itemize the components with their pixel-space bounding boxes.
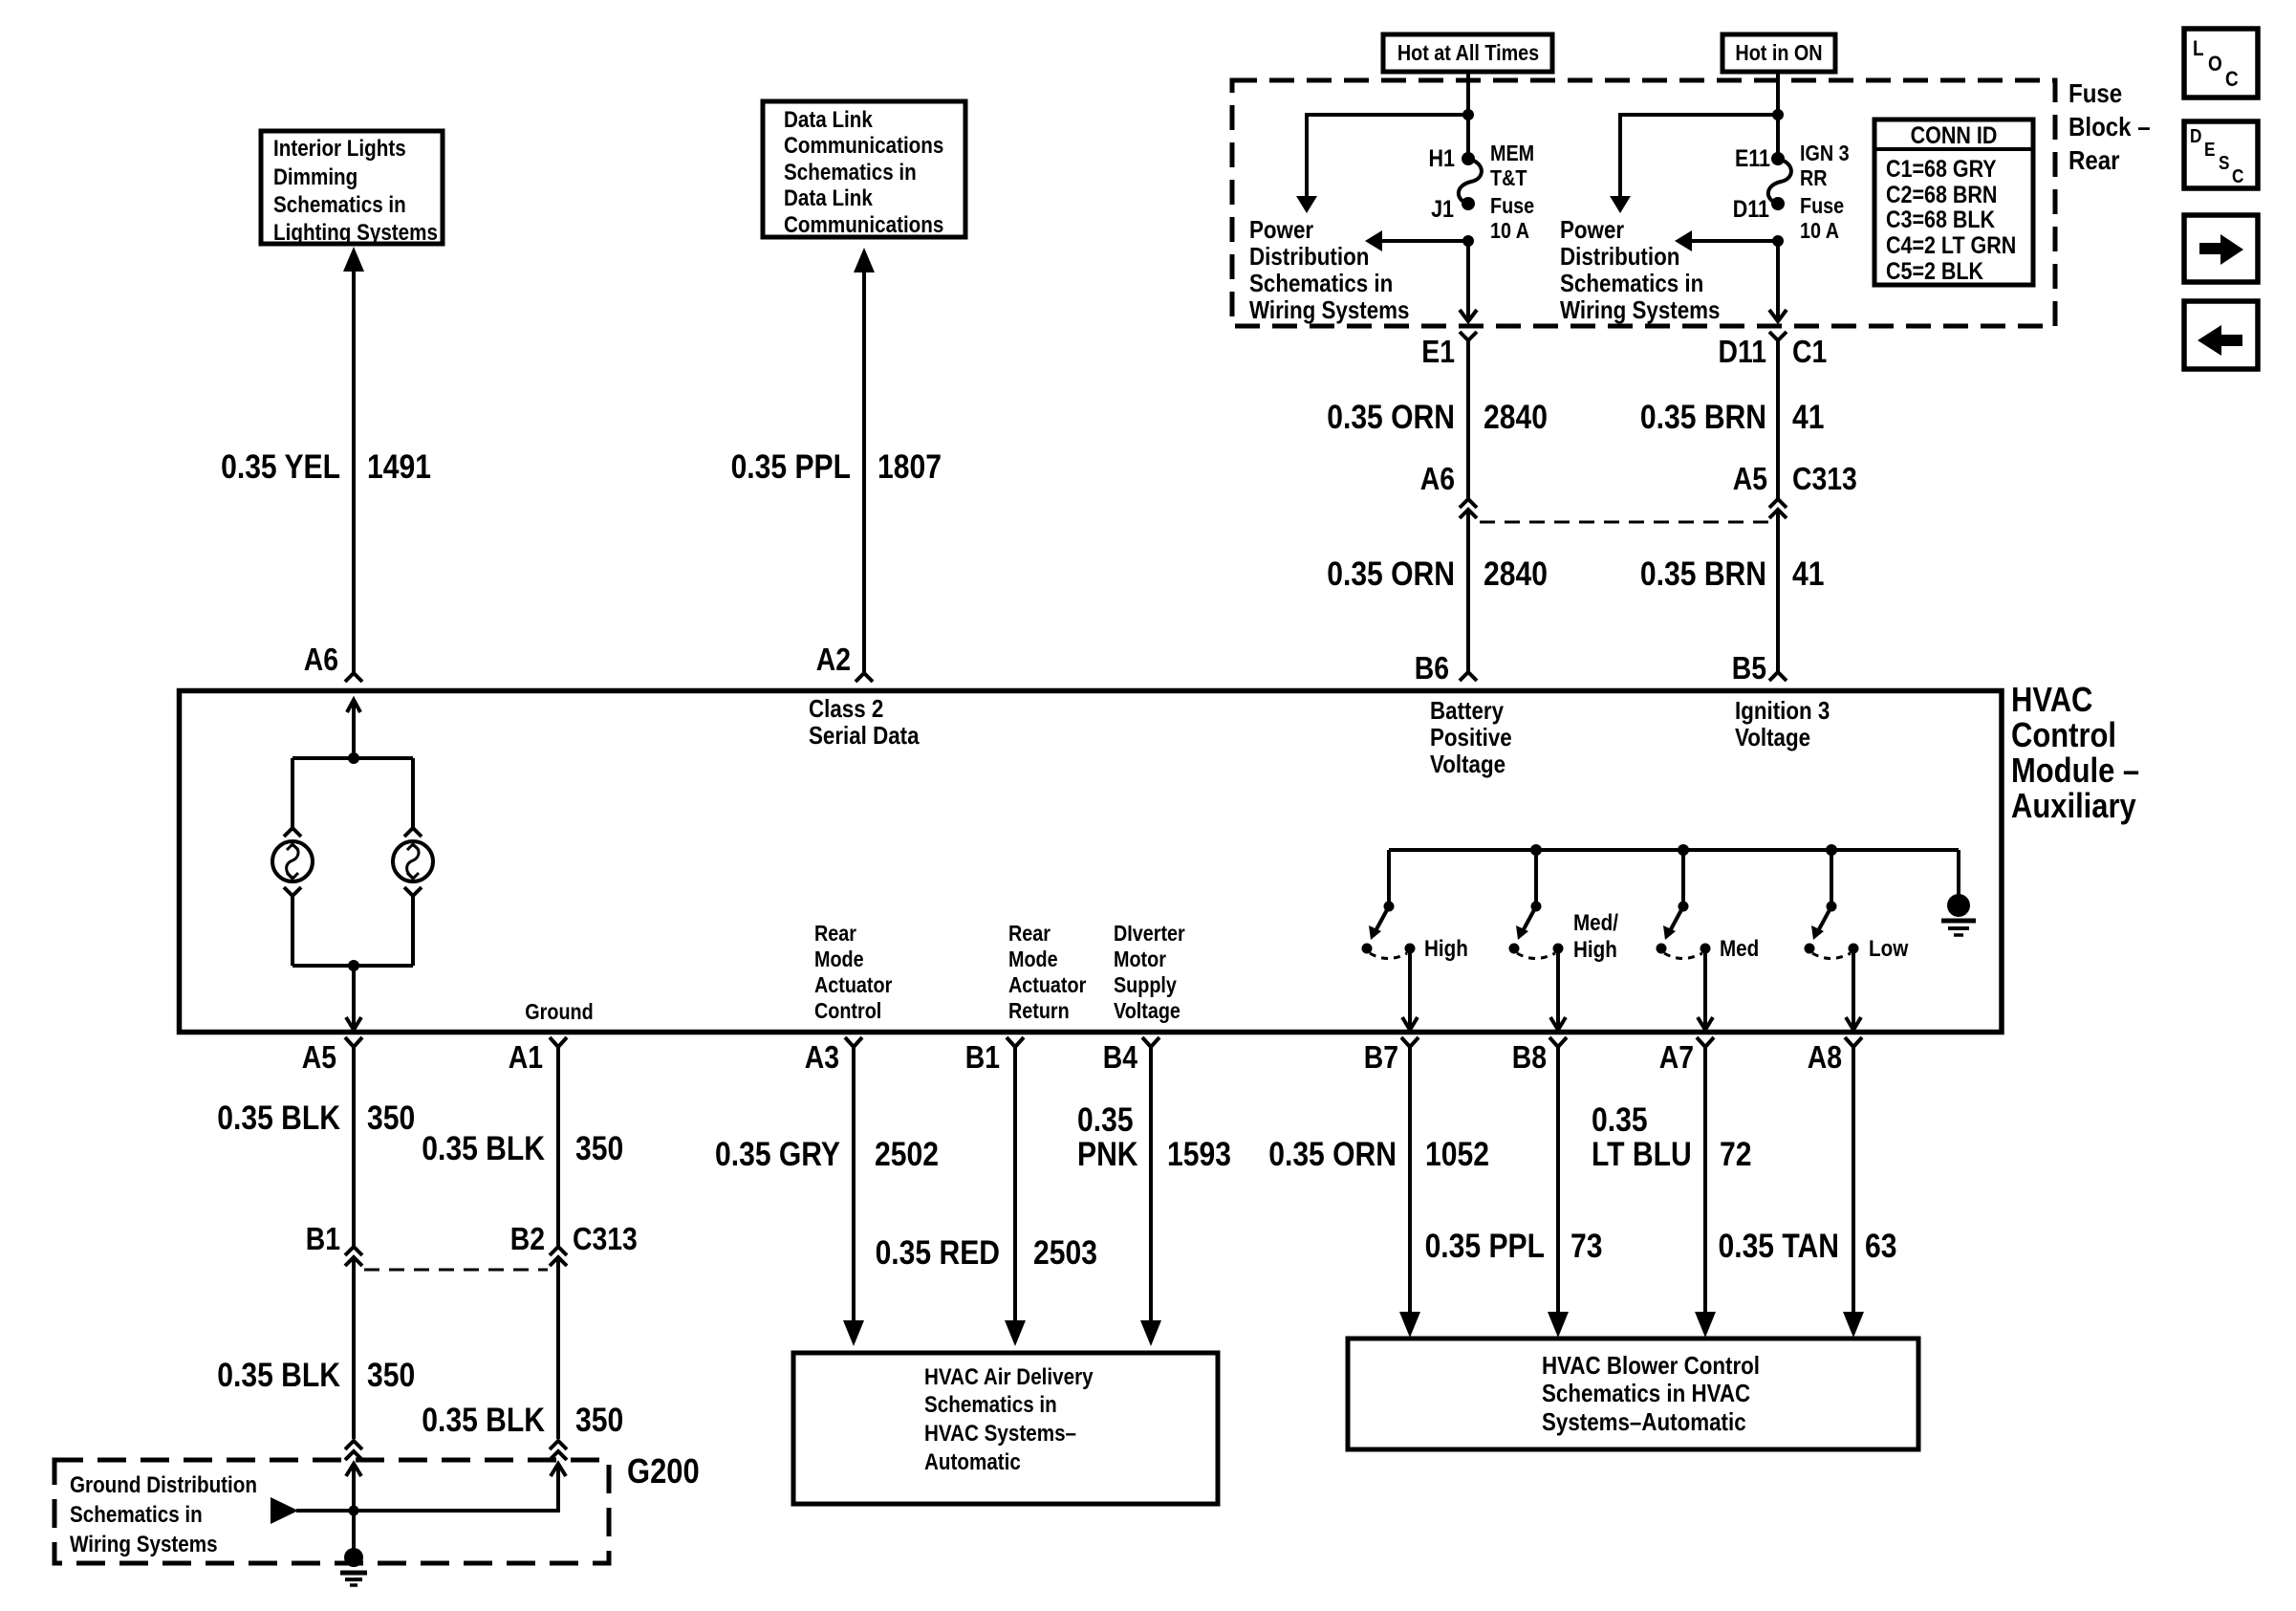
link box HVAC Air Delivery Schematics in HVAC Systems-Automatic [793,1353,1218,1504]
junction node below fuse [1772,235,1784,247]
svg-text:0.35 PPL: 0.35 PPL [1425,1227,1545,1265]
svg-text:Actuator: Actuator [1008,973,1087,998]
in-line connector C313 right half (B2) [550,1247,567,1266]
svg-text:Wiring Systems: Wiring Systems [70,1532,218,1557]
svg-text:0.35 TAN: 0.35 TAN [1718,1227,1839,1265]
dashed harness line of connector C313 [1480,521,1768,524]
svg-text:73: 73 [1570,1227,1602,1265]
svg-text:Class 2: Class 2 [809,695,883,723]
junction node rail SW2 [1530,844,1542,856]
pin A8 connector half (module bottom) [1845,1037,1862,1047]
wire 0.35 LT BLU 72 [1695,1047,1716,1338]
switch SW1 output arrow to B7 [1402,948,1418,1030]
internal label Ignition 3 Voltage [1735,697,1830,751]
svg-text:Ground: Ground [525,1000,593,1025]
wire right branch down to lamp 2 [411,758,415,831]
svg-text:E11: E11 [1735,144,1770,171]
pin B7 connector half (module bottom) [1401,1037,1419,1047]
connector half at HVAC module pin A6 (top) [345,673,362,682]
branch arrow pointing left at J1 level [1365,230,1468,251]
svg-text:C1: C1 [1792,334,1827,370]
HVAC Control Module - Auxiliary outline [180,691,2003,1033]
switch SW4 output arrow to A8 [1846,948,1861,1030]
svg-text:0.35 ORN: 0.35 ORN [1327,555,1455,593]
text Power Distribution Schematics in Wiring Systems (left) [1249,216,1409,324]
svg-text:Rear: Rear [1008,922,1051,947]
ground symbol G200 [340,1548,367,1585]
svg-text:Return: Return [1008,999,1070,1024]
connector chevron above lamp 2 [404,828,422,837]
svg-text:D11: D11 [1733,195,1769,222]
svg-text:C313: C313 [1792,461,1857,497]
svg-text:LT BLU: LT BLU [1592,1135,1692,1173]
svg-text:High: High [1573,937,1617,963]
svg-text:0.35 BLK: 0.35 BLK [217,1099,340,1137]
svg-text:Communications: Communications [784,133,943,159]
wire 0.35 BLK 350 (A1 upper) [556,1047,560,1246]
svg-text:Fuse: Fuse [1800,194,1844,219]
branch arrow pointing left at D11 level [1675,230,1778,251]
label HVAC Control Module - Auxiliary [2011,682,2139,826]
svg-text:Ground Distribution: Ground Distribution [70,1472,257,1498]
fuse name IGN 3 RR Fuse 10 A [1800,142,1850,244]
pin A7 connector half (module bottom) [1697,1037,1714,1047]
internal label Rear Mode Actuator Control [814,922,893,1024]
internal label Class 2 Serial Data [809,695,920,750]
svg-text:Motor: Motor [1114,947,1166,972]
connector half below fuse block edge (D11) [1769,332,1787,340]
wire 0.35 BRN 41 upper segment [1776,339,1780,498]
svg-text:C3=68 BLK: C3=68 BLK [1886,206,1995,232]
svg-text:C4=2 LT GRN: C4=2 LT GRN [1886,231,2016,258]
svg-text:Data Link: Data Link [784,107,873,133]
pin B4 connector half (module bottom) [1142,1037,1159,1047]
svg-text:0.35 ORN: 0.35 ORN [1327,398,1455,436]
svg-text:HVAC Air Delivery: HVAC Air Delivery [924,1364,1094,1390]
svg-text:Med/: Med/ [1573,910,1618,936]
svg-text:Mode: Mode [1008,947,1058,972]
wire right branch to bottom rail [411,894,415,966]
connector halves at G200 (left wire) [345,1441,362,1460]
svg-text:A3: A3 [805,1039,839,1076]
pin B8 connector half (module bottom) [1549,1037,1567,1047]
wire label 0.35 LT BLU [1592,1100,1692,1173]
svg-text:72: 72 [1720,1135,1751,1173]
svg-text:C5=2 BLK: C5=2 BLK [1886,257,1983,284]
internal arrow down to pin A5 [346,966,361,1030]
svg-text:1052: 1052 [1425,1135,1489,1173]
svg-text:C313: C313 [573,1221,638,1257]
svg-text:Schematics in: Schematics in [1560,270,1703,297]
lamp L1 (illumination lamp symbol) [272,841,313,882]
svg-text:Rear: Rear [2069,144,2120,175]
connector chevron above lamp 1 [284,828,301,837]
svg-text:L: L [2193,37,2204,61]
wire down from J1 junction to fuse block edge with open arrow [1460,241,1477,321]
svg-text:Module –: Module – [2011,752,2139,791]
svg-text:B8: B8 [1512,1039,1547,1076]
svg-text:63: 63 [1865,1227,1896,1265]
svg-text:C2=68 BRN: C2=68 BRN [1886,181,1997,207]
ground distribution dashed box [54,1460,609,1563]
svg-text:A8: A8 [1808,1039,1842,1076]
svg-text:Interior Lights: Interior Lights [273,136,406,162]
svg-text:Mode: Mode [814,947,864,972]
svg-text:Control: Control [2011,717,2116,755]
svg-text:Actuator: Actuator [814,973,893,998]
svg-text:350: 350 [575,1129,623,1167]
wire down from D11 junction to fuse block edge with open arrow [1769,241,1787,321]
svg-text:CONN ID: CONN ID [1911,121,1998,148]
svg-text:10 A: 10 A [1800,219,1839,244]
svg-text:0.35 BLK: 0.35 BLK [217,1356,340,1394]
svg-text:0.35 YEL: 0.35 YEL [221,447,340,486]
connector half at HVAC module pin B5 (top) [1769,672,1787,681]
svg-text:E1: E1 [1421,334,1455,370]
svg-text:Communications: Communications [784,212,943,238]
wire label 0.35 PNK [1077,1100,1138,1173]
link box: Interior Lights Dimming Schematics in Lighting Systems [261,131,443,245]
svg-text:0.35 RED: 0.35 RED [876,1233,1000,1272]
svg-text:0.35 ORN: 0.35 ORN [1268,1135,1397,1173]
svg-text:HVAC Blower Control: HVAC Blower Control [1542,1352,1760,1380]
svg-text:B1: B1 [965,1039,1000,1076]
reference box left arrow [2184,301,2258,369]
wire branch to Power Distribution (left arrow down) [1296,115,1466,213]
svg-text:Ignition 3: Ignition 3 [1735,697,1830,725]
internal arrow up (left ground wire) [346,1464,361,1511]
connector halves at G200 (right wire) [550,1441,567,1460]
dashed harness line of connector C313 (B1-B2) [364,1269,548,1272]
feed box Hot in ON [1722,34,1835,72]
svg-text:0.35 GRY: 0.35 GRY [715,1135,840,1173]
wire from Hot in ON to fuse IGN 3 RR [1776,72,1780,159]
wire 0.35 BLK 350 (B2 lower) [556,1257,560,1439]
svg-text:2502: 2502 [875,1135,939,1173]
svg-text:A6: A6 [304,642,338,678]
svg-text:A1: A1 [509,1039,543,1076]
junction node rail SW4 [1826,844,1837,856]
pin B1 connector half (module bottom) [1007,1037,1024,1047]
svg-text:Voltage: Voltage [1735,724,1810,751]
svg-text:10 A: 10 A [1490,219,1529,244]
svg-text:H1: H1 [1429,144,1456,171]
switch SW4 Low [1805,850,1859,959]
link box: Data Link Communications Schematics in Data Link Communications [763,101,965,237]
svg-text:Serial Data: Serial Data [809,722,920,750]
svg-text:A2: A2 [816,642,851,678]
switch SW3 output arrow to A7 [1698,948,1713,1030]
svg-text:2840: 2840 [1484,555,1548,593]
fuse name MEM T&T Fuse 10 A [1490,142,1534,244]
svg-text:C: C [2225,68,2239,92]
svg-text:A5: A5 [302,1039,336,1076]
svg-text:D: D [2190,125,2201,147]
svg-text:Hot in ON: Hot in ON [1735,41,1822,66]
switch SW3 Med [1657,850,1711,959]
internal label Battery Positive Voltage [1430,697,1512,778]
svg-text:MEM: MEM [1490,142,1534,166]
svg-text:B7: B7 [1364,1039,1398,1076]
svg-text:Control: Control [814,999,881,1024]
fuse IGN 3 RR Fuse 10 A [1768,152,1791,210]
svg-text:Lighting Systems: Lighting Systems [273,220,438,246]
wire 0.35 ORN 1052 [1399,1047,1420,1338]
svg-text:Schematics in: Schematics in [1249,270,1393,297]
svg-text:B4: B4 [1103,1039,1137,1076]
svg-text:Positive: Positive [1430,724,1512,751]
label Fuse Block - Rear [2069,77,2151,175]
wire 0.35 ORN 2840 upper segment [1466,339,1470,498]
text Power Distribution Schematics in Wiring Systems (right) [1560,216,1720,324]
svg-text:2840: 2840 [1484,398,1548,436]
svg-text:Distribution: Distribution [1249,243,1369,271]
svg-text:DIverter: DIverter [1114,922,1185,947]
svg-text:Dimming: Dimming [273,164,357,190]
lamp circuit bottom rail [292,964,413,968]
in-line connector C313 right half (A5) [1769,499,1787,518]
svg-text:2503: 2503 [1033,1233,1097,1272]
svg-text:0.35 BLK: 0.35 BLK [422,1129,545,1167]
svg-text:PNK: PNK [1077,1135,1138,1173]
internal label Rear Mode Actuator Return [1008,922,1087,1024]
fuse MEM T&T Fuse 10 A [1459,152,1482,210]
switch SW2 output arrow to B8 [1550,948,1566,1030]
svg-text:350: 350 [367,1099,415,1137]
svg-text:Med: Med [1720,936,1759,962]
wire 0.35 PPL 73 [1548,1047,1569,1338]
svg-text:Wiring Systems: Wiring Systems [1560,296,1720,324]
svg-text:D11: D11 [1719,334,1766,370]
svg-text:HVAC Systems–: HVAC Systems– [924,1421,1076,1447]
wire 0.35 PNK 1593 [1140,1047,1161,1346]
junction node below fuse [1462,235,1474,247]
junction node on ground bus [349,1506,359,1516]
switch SW2 Med/High [1509,850,1564,959]
svg-text:A5: A5 [1733,461,1767,497]
reference box right arrow [2184,215,2258,282]
ground bus line with source arrow [271,1477,558,1524]
internal ground symbol (switch common) [1941,850,1976,935]
svg-text:Schematics in: Schematics in [924,1392,1057,1418]
switch SW1 High [1362,850,1416,959]
svg-text:A7: A7 [1659,1039,1694,1076]
svg-text:Schematics in: Schematics in [784,160,917,185]
pin A5 connector half (module bottom) [345,1037,362,1047]
svg-text:Wiring Systems: Wiring Systems [1249,296,1409,324]
connector chevron below lamp 1 [284,887,301,896]
in-line connector C313 left half (B1) [345,1247,362,1266]
svg-text:Auxiliary: Auxiliary [2011,788,2136,826]
svg-text:Low: Low [1869,936,1909,962]
svg-text:Schematics in: Schematics in [70,1502,203,1528]
svg-text:Rear: Rear [814,922,857,947]
svg-text:350: 350 [575,1401,623,1439]
svg-text:41: 41 [1792,555,1824,593]
junction node bottom of lamp circuit [348,960,359,971]
wire down to ground G200 [352,1511,356,1554]
svg-text:Fuse: Fuse [1490,194,1534,219]
svg-text:RR: RR [1800,166,1828,191]
svg-text:0.35 BRN: 0.35 BRN [1640,398,1766,436]
reference box LOC [2184,29,2258,98]
svg-text:O: O [2208,53,2222,76]
svg-text:Block –: Block – [2069,111,2151,142]
blower switch rail [1389,848,1959,852]
svg-text:G200: G200 [627,1453,700,1491]
text Ground Distribution Schematics in Wiring Systems [70,1472,257,1557]
svg-text:1491: 1491 [367,447,431,486]
wire branch to Power Distribution (left arrow down) [1610,115,1776,213]
svg-text:B5: B5 [1732,650,1766,686]
svg-text:Battery: Battery [1430,697,1504,725]
lamp circuit top rail [292,756,413,760]
svg-text:0.35 BLK: 0.35 BLK [422,1401,545,1439]
wire from Hot at All Times to fuse MEM T&T [1466,72,1470,159]
svg-text:Voltage: Voltage [1114,999,1180,1024]
reference box DESC [2184,121,2258,188]
internal arrow up (right ground wire) [551,1464,566,1511]
internal label Diverter Motor Supply Voltage [1114,922,1185,1024]
svg-text:0.35 PPL: 0.35 PPL [731,447,851,486]
wire 0.35 PPL 1807 (A2 to Data Link box) [854,248,875,672]
wire 0.35 GRY 2502 [843,1047,864,1346]
internal arrow up to pin A6 [347,700,360,758]
svg-text:HVAC: HVAC [2011,682,2092,720]
wire left branch down to lamp 1 [291,758,294,831]
svg-text:41: 41 [1792,398,1824,436]
junction node rail SW3 [1678,844,1689,856]
switch label Med/High [1573,910,1618,963]
svg-text:B2: B2 [510,1221,545,1257]
svg-text:Distribution: Distribution [1560,243,1679,271]
svg-text:C1=68 GRY: C1=68 GRY [1886,155,1997,182]
svg-text:Schematics in: Schematics in [273,192,406,218]
svg-text:Automatic: Automatic [924,1449,1021,1475]
svg-text:1593: 1593 [1167,1135,1231,1173]
wire 0.35 YEL 1491 (A6 to Interior Lights box) [343,247,364,672]
svg-text:0.35: 0.35 [1592,1100,1648,1139]
junction node [1772,109,1784,120]
svg-text:High: High [1424,936,1468,962]
svg-text:Power: Power [1249,216,1314,244]
svg-text:Power: Power [1560,216,1625,244]
connector half at HVAC module pin B6 (top) [1460,672,1477,681]
wire 0.35 BLK 350 (B1 lower) [352,1257,356,1439]
wire left branch to bottom rail [291,894,294,966]
svg-text:IGN 3: IGN 3 [1800,142,1850,166]
in-line connector C313 left half (A6) [1460,499,1477,518]
lamp L2 (illumination lamp symbol) [393,841,433,882]
wire 0.35 BLK 350 (A5 upper) [352,1047,356,1246]
svg-text:1807: 1807 [877,447,942,486]
svg-text:350: 350 [367,1356,415,1394]
wire 0.35 ORN 2840 lower segment [1466,510,1470,671]
svg-text:T&T: T&T [1490,166,1527,191]
svg-text:A6: A6 [1420,461,1455,497]
svg-text:S: S [2219,152,2229,174]
svg-text:Voltage: Voltage [1430,751,1505,778]
connector chevron below lamp 2 [404,887,422,896]
svg-text:J1: J1 [1431,195,1454,222]
svg-text:E: E [2204,139,2215,161]
wire 0.35 TAN 63 [1843,1047,1864,1338]
svg-text:B1: B1 [306,1221,340,1257]
wire 0.35 BRN 41 lower segment [1776,510,1780,671]
svg-text:C: C [2232,165,2243,187]
junction node [1462,109,1474,120]
svg-text:Data Link: Data Link [784,185,873,211]
svg-text:B6: B6 [1415,650,1449,686]
CONN ID table [1874,120,2033,285]
junction node top of lamp circuit [348,752,359,764]
svg-text:Schematics in HVAC: Schematics in HVAC [1542,1380,1750,1407]
svg-text:0.35 BRN: 0.35 BRN [1640,555,1766,593]
svg-text:Fuse: Fuse [2069,77,2122,108]
link box HVAC Blower Control Schematics in HVAC Systems-Automatic [1348,1339,1918,1449]
wire 0.35 RED 2503 [1005,1047,1026,1346]
svg-text:Supply: Supply [1114,973,1177,998]
Fuse Block - Rear dashed outline [1232,80,2055,326]
feed box Hot at All Times [1383,34,1552,72]
pin A1 connector half (module bottom) [550,1037,567,1047]
svg-text:Hot at All Times: Hot at All Times [1397,41,1539,66]
svg-text:Systems–Automatic: Systems–Automatic [1542,1408,1746,1436]
connector half below fuse block edge (E1) [1460,332,1477,340]
svg-text:0.35: 0.35 [1077,1100,1134,1139]
connector half at HVAC module pin A2 (top) [856,673,873,682]
pin A3 connector half (module bottom) [845,1037,862,1047]
